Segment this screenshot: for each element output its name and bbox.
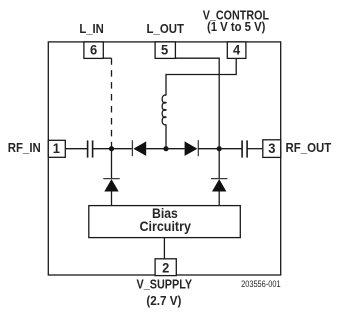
wire pin5 horizontal to node B branch <box>175 58 219 149</box>
label Bias Circuitry <box>139 206 191 234</box>
wire C1 to node A <box>93 148 112 150</box>
wire bias box to pin2 <box>163 238 165 259</box>
svg-text:V_SUPPLY: V_SUPPLY <box>137 277 193 292</box>
svg-text:RF_OUT: RF_OUT <box>286 140 332 155</box>
inductor L1 <box>162 95 166 125</box>
svg-text:4: 4 <box>233 42 240 58</box>
bias circuitry block <box>89 206 241 238</box>
svg-text:L_OUT: L_OUT <box>147 21 185 36</box>
svg-text:(1 V to 5 V): (1 V to 5 V) <box>207 19 266 34</box>
diode D4 (series, pointing right) <box>185 140 199 156</box>
wire D4 to node B <box>198 148 219 150</box>
capacitor C1 <box>88 140 93 157</box>
wire node A down to D1 <box>111 149 113 179</box>
wire pin6 jog <box>102 57 112 59</box>
wire pin4 drop <box>166 58 236 95</box>
wire RF line pin1 to C1 <box>65 148 87 150</box>
wire node A to diode D3 <box>112 148 132 150</box>
svg-text:(2.7 V): (2.7 V) <box>146 293 181 308</box>
wire D2 to bias box <box>218 192 220 206</box>
wire D1 to bias box <box>111 192 113 206</box>
svg-text:3: 3 <box>268 140 275 156</box>
diode D2 (shunt, pointing up) <box>211 179 227 192</box>
svg-text:5: 5 <box>161 42 168 58</box>
pin 5 box <box>155 42 175 59</box>
pin 3 box <box>263 140 281 158</box>
wire node B to C2 <box>219 148 242 150</box>
chip outline border <box>48 42 280 275</box>
diode D1 (shunt, pointing up) <box>103 179 119 192</box>
pin 1 box <box>48 140 65 157</box>
svg-text:1: 1 <box>53 140 60 156</box>
capacitor C2 <box>242 140 247 157</box>
diode D3 (series, pointing left) <box>132 140 146 156</box>
pin 4 box <box>227 42 246 59</box>
svg-text:L_IN: L_IN <box>79 21 104 36</box>
pin 6 box <box>84 42 103 59</box>
wire D3 to node M <box>146 148 166 150</box>
wire pin6 dashed drop to node A <box>111 58 113 149</box>
node A junction dot <box>109 146 114 151</box>
pin 2 box <box>155 259 176 276</box>
svg-text:RF_IN: RF_IN <box>8 140 41 155</box>
svg-text:Circuitry: Circuitry <box>139 219 191 234</box>
svg-text:6: 6 <box>90 42 97 58</box>
wire node M to diode D4 <box>166 148 185 150</box>
node B junction dot <box>217 146 222 151</box>
node M junction dot <box>163 146 168 151</box>
svg-text:203556-001: 203556-001 <box>241 279 281 289</box>
svg-text:2: 2 <box>162 259 169 275</box>
wire node B down to D2 <box>218 149 220 179</box>
wire C2 to pin3 <box>247 148 263 150</box>
wire inductor to node M <box>165 124 167 148</box>
